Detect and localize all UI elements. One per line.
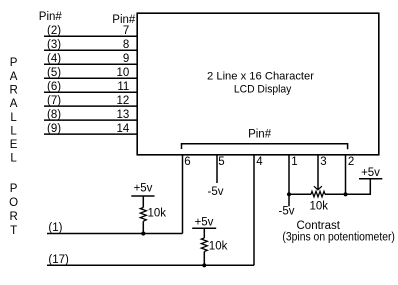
svg-text:13: 13: [117, 109, 130, 121]
wire contrast rail left (pin1 to pot): [289, 193, 311, 195]
svg-text:10k: 10k: [209, 241, 228, 253]
junction pin2/+5v node: [343, 192, 347, 196]
svg-text:A: A: [10, 71, 18, 83]
svg-text:(3): (3): [47, 39, 61, 51]
wire LCD pin 5 (R/W) to -5v: [217, 155, 225, 183]
wire LCD pin 1 (Vss) down to contrast rail: [289, 155, 298, 194]
svg-text:(5): (5): [47, 67, 61, 79]
svg-text:10: 10: [117, 67, 130, 79]
svg-text:O: O: [9, 197, 18, 209]
svg-text:1: 1: [291, 156, 297, 168]
potentiometer 10k (contrast): [310, 191, 329, 212]
svg-text:5: 5: [218, 156, 224, 168]
junction strobe/pin6 node: [141, 231, 145, 235]
svg-text:+5v: +5v: [195, 216, 214, 228]
svg-text:+5v: +5v: [134, 183, 153, 195]
svg-text:R: R: [9, 84, 17, 96]
svg-text:2: 2: [348, 156, 354, 168]
svg-text:T: T: [10, 225, 17, 237]
svg-text:(1): (1): [48, 222, 62, 234]
svg-text:7: 7: [123, 25, 129, 37]
node label PARALLEL PORT: [9, 57, 18, 237]
svg-text:+5v: +5v: [361, 167, 380, 179]
resistor 10k pull-up (pin 17): [201, 238, 227, 265]
LCD module U1: 2 Line x 16 Character LCD Display: [137, 13, 379, 155]
svg-text:P: P: [10, 183, 18, 195]
svg-text:(17): (17): [48, 254, 69, 266]
svg-text:(4): (4): [47, 53, 61, 65]
svg-text:6: 6: [184, 156, 190, 168]
svg-text:10k: 10k: [310, 201, 329, 213]
svg-text:P: P: [10, 57, 18, 69]
wire D0: parallel pin (2) to LCD pin 7: [44, 25, 137, 37]
svg-text:R: R: [9, 211, 17, 223]
svg-text:E: E: [10, 139, 18, 151]
power +5v (pull-up on pin 17 line): [192, 216, 216, 238]
svg-text:9: 9: [123, 53, 129, 65]
svg-text:-5v: -5v: [279, 206, 295, 218]
svg-text:(6): (6): [47, 81, 61, 93]
wire LCD pin 4 (RS) down to (17) row: [254, 155, 263, 265]
node label Pin# (LCD side, bottom) with bracket: [182, 128, 348, 149]
svg-text:12: 12: [117, 95, 130, 107]
wire contrast rail right (pot to pin2): [325, 193, 346, 195]
svg-text:Pin#: Pin#: [248, 128, 272, 140]
wire parallel pin (1) strobe row: [47, 222, 183, 234]
resistor 10k pull-up (strobe): [140, 208, 166, 234]
svg-text:8: 8: [123, 39, 129, 51]
svg-text:14: 14: [117, 123, 130, 135]
svg-text:(7): (7): [47, 95, 61, 107]
wire -5v stub: [288, 194, 290, 206]
svg-text:L: L: [10, 112, 17, 124]
svg-text:(3pins on potentiometer): (3pins on potentiometer): [282, 231, 395, 243]
svg-text:2 Line x 16 Character: 2 Line x 16 Character: [207, 71, 314, 83]
wire D1: parallel pin (3) to LCD pin 8: [44, 39, 137, 51]
svg-text:11: 11: [117, 81, 129, 93]
wire D3: parallel pin (5) to LCD pin 10: [44, 67, 137, 79]
svg-text:10k: 10k: [148, 208, 167, 220]
svg-text:(8): (8): [47, 109, 61, 121]
svg-text:Contrast: Contrast: [297, 220, 341, 232]
svg-text:3: 3: [320, 156, 326, 168]
wire D7: parallel pin (9) to LCD pin 14: [44, 123, 137, 135]
power +5v (pull-up on strobe line): [131, 183, 154, 208]
power +5v (contrast): [359, 167, 382, 179]
svg-text:Pin#: Pin#: [112, 14, 136, 26]
svg-text:L: L: [10, 153, 17, 165]
svg-text:Pin#: Pin#: [39, 11, 63, 23]
wire D5: parallel pin (7) to LCD pin 12: [44, 95, 137, 107]
wire LCD pin 2 (Vdd) down to +5v rail: [346, 155, 355, 194]
wire LCD pin 6 (E) down to node RS/E row: [183, 155, 191, 234]
svg-text:-5v: -5v: [208, 186, 224, 198]
wire D2: parallel pin (4) to LCD pin 9: [44, 53, 137, 65]
svg-text:(9): (9): [47, 123, 61, 135]
svg-text:L: L: [10, 125, 17, 137]
wire D6: parallel pin (8) to LCD pin 13: [44, 109, 137, 121]
wire D4: parallel pin (6) to LCD pin 11: [44, 81, 137, 93]
wire LCD pin 3 (Vo) wiper arrow to potentiometer: [314, 155, 327, 190]
svg-text:(2): (2): [47, 25, 61, 37]
wire parallel pin (17) row: [47, 254, 254, 266]
junction pin17/pin4 node: [202, 263, 206, 267]
svg-text:A: A: [10, 98, 18, 110]
junction pin1/-5v node: [287, 192, 291, 196]
wire pin2 to +5v riser: [346, 179, 371, 195]
svg-text:LCD Display: LCD Display: [234, 84, 292, 96]
svg-text:4: 4: [256, 156, 263, 168]
